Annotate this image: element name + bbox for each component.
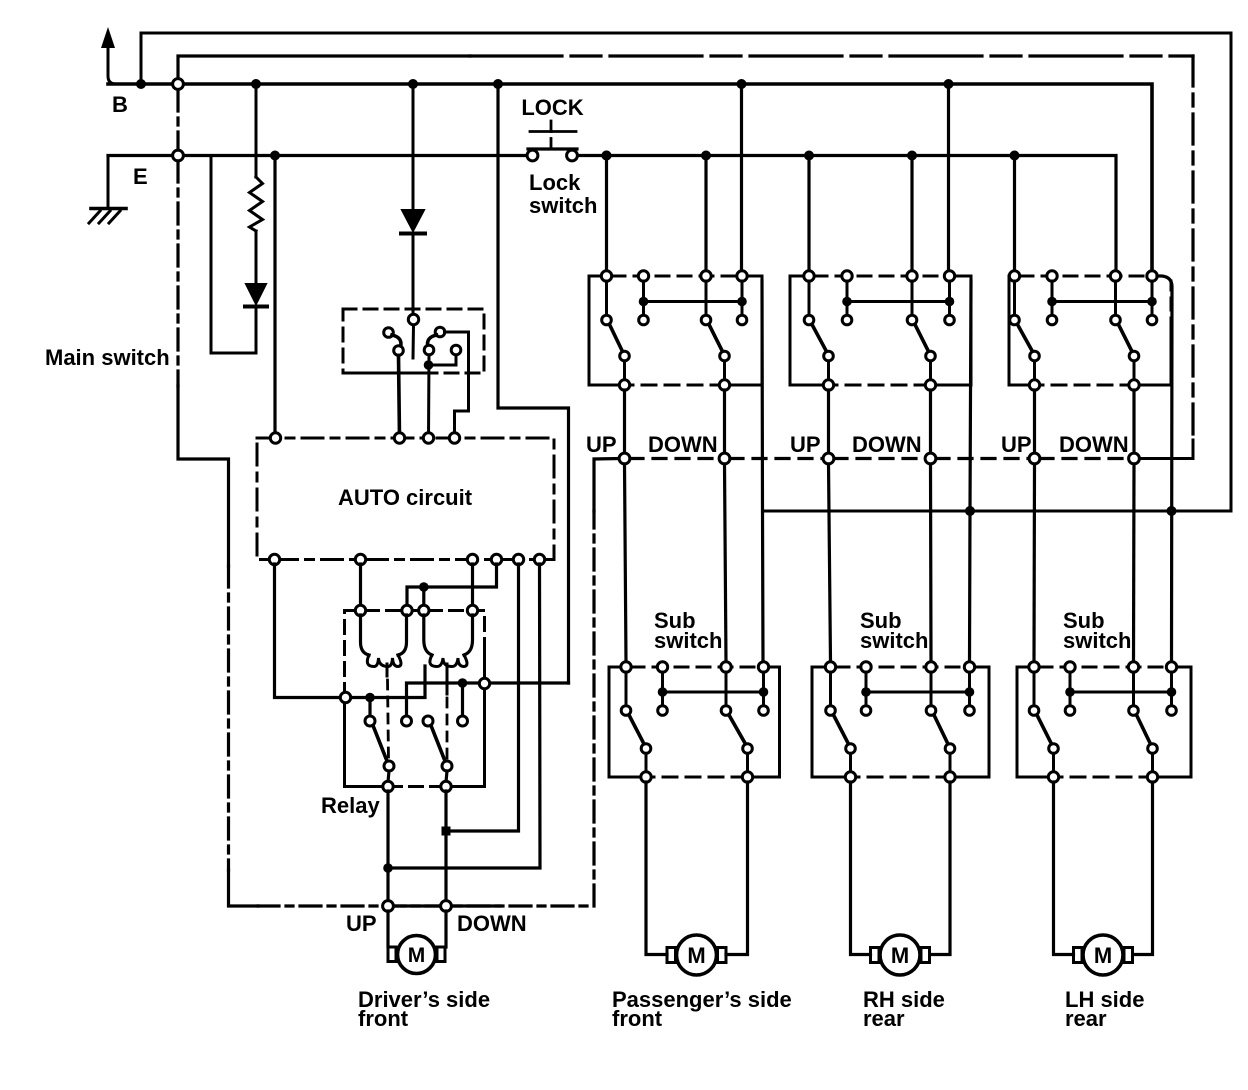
wire S3 bridge bar bbox=[1052, 300, 1152, 303]
switch arm S3 UP bbox=[1030, 351, 1040, 361]
switch arm S2 DOWN bbox=[926, 351, 936, 361]
Main switch boundary dashed bbox=[176, 161, 179, 386]
relay switch 2 bbox=[423, 716, 468, 792]
junction E to S1 T1 bbox=[602, 151, 612, 161]
relay coil 2 bbox=[424, 615, 473, 667]
switch arm S3 DOWN bbox=[1129, 351, 1139, 361]
wire sub1 to motor right bbox=[726, 782, 748, 955]
terminal relay feed bbox=[479, 678, 489, 688]
svg-text:front: front bbox=[358, 1006, 409, 1031]
terminal S2 T2 bbox=[842, 271, 852, 281]
terminal relay left bbox=[340, 692, 350, 702]
LOCK switch symbol bbox=[521, 95, 583, 161]
svg-text:DOWN: DOWN bbox=[852, 432, 922, 457]
terminal sub1 T1 bbox=[621, 662, 631, 672]
terminal sub2 T1 bbox=[825, 662, 835, 672]
terminal main switch E node bbox=[173, 150, 184, 161]
junction E to AUTO bbox=[270, 151, 280, 161]
wire S3 DOWN node to sub3 T3 bbox=[1132, 464, 1136, 662]
terminal S2 T3 bbox=[907, 271, 917, 281]
svg-text:M: M bbox=[408, 944, 426, 967]
svg-text:Relay: Relay bbox=[321, 793, 380, 818]
terminal sub2 T4 bbox=[964, 662, 974, 672]
wire B to S1 T4 bbox=[740, 84, 743, 271]
terminal S1 UP node bbox=[619, 453, 630, 464]
svg-text:UP: UP bbox=[346, 911, 377, 936]
AUTO circuit box bbox=[257, 433, 554, 565]
sub switch box 3 bbox=[1017, 662, 1191, 782]
wire contact D to AUTO bbox=[427, 355, 431, 438]
diode D2 bbox=[401, 84, 425, 314]
contact S3 pole 2 bbox=[1111, 315, 1121, 325]
wire S3 bridge stubs bbox=[1052, 281, 1152, 302]
junction coils common bbox=[419, 582, 429, 592]
wire E bus bbox=[108, 154, 527, 157]
switch arm sub2 UP bbox=[846, 744, 856, 754]
terminal S1 DOWN node bbox=[719, 453, 730, 464]
wire sub1 bridge bar bbox=[663, 691, 764, 694]
wire S3 T4 bend to sub3 bbox=[1157, 276, 1172, 662]
wire S1 UP node to sub1 T1 bbox=[625, 464, 627, 662]
wire S1 bridge stubs bbox=[644, 281, 743, 302]
junction D/E bbox=[424, 360, 434, 370]
wire S1 T4 to sub1 bbox=[762, 281, 763, 662]
junction feed RH bbox=[965, 506, 975, 516]
switch arm sub3 DOWN bbox=[1148, 744, 1158, 754]
svg-text:E: E bbox=[133, 164, 148, 189]
wire E to S3 T1 bbox=[1013, 156, 1016, 272]
junction feed at B bus bbox=[493, 79, 503, 89]
terminal S3 T3 bbox=[1110, 271, 1120, 281]
wire contact C to AUTO bbox=[445, 332, 469, 438]
relay coil 1 bbox=[361, 615, 407, 667]
wire E to S2 T1 bbox=[807, 156, 810, 272]
wire E to S2 T3 bbox=[910, 156, 913, 272]
wire relay to motor UP bbox=[386, 791, 389, 901]
terminal S2 T1 bbox=[804, 271, 814, 281]
terminal sub3 T4 bbox=[1166, 662, 1176, 672]
svg-text:DOWN: DOWN bbox=[457, 911, 527, 936]
wire junction to coil2 bbox=[422, 587, 425, 606]
terminal S2 UP node bbox=[823, 453, 834, 464]
terminal S1 T4 bbox=[737, 271, 747, 281]
motor M2 passenger's side front bbox=[667, 935, 726, 975]
junction B to S2 T4 bbox=[944, 79, 954, 89]
wire node line S1 bbox=[630, 457, 719, 460]
wire S2 DOWN node to sub2 T3 bbox=[929, 464, 933, 662]
terminal S1 T3 bbox=[701, 271, 711, 281]
wire AUTO left to relay bbox=[275, 564, 341, 698]
wire S2 pole stubs bbox=[809, 281, 912, 315]
wire S2 bridge bar bbox=[847, 300, 950, 303]
wire sub3 to motor right bbox=[1133, 782, 1153, 955]
wire B to relay contact feed bbox=[498, 84, 569, 683]
svg-text:Lock: Lock bbox=[529, 170, 581, 195]
wire sub2 to motor right bbox=[930, 782, 950, 955]
wire top feed line bbox=[141, 33, 1231, 511]
contact S2 pole 2 bbox=[907, 315, 917, 325]
junction UP sense bbox=[383, 863, 393, 873]
wire S3 UP to node bbox=[1033, 390, 1036, 453]
junction E to S2 T1 bbox=[804, 151, 814, 161]
svg-text:UP: UP bbox=[790, 432, 821, 457]
diode D1 bbox=[245, 284, 267, 353]
svg-text:switch: switch bbox=[1063, 628, 1131, 653]
terminal S3 T2 bbox=[1047, 271, 1057, 281]
terminal S1 T2 bbox=[638, 271, 648, 281]
svg-text:UP: UP bbox=[1001, 432, 1032, 457]
mechanical link coil1 bbox=[386, 664, 389, 676]
wire S2 bridge stubs bbox=[847, 281, 950, 302]
wire S1 UP to node bbox=[623, 390, 626, 453]
switch box S2 bbox=[790, 271, 971, 390]
terminal main switch B node bbox=[173, 79, 184, 90]
svg-text:B: B bbox=[112, 92, 128, 117]
svg-text:rear: rear bbox=[863, 1006, 905, 1031]
terminal sub2 T2 bbox=[861, 662, 871, 672]
wire E to AUTO circuit bbox=[273, 156, 276, 439]
terminal sub1 T4 bbox=[758, 662, 768, 672]
terminal driver DOWN bbox=[441, 901, 452, 912]
relay switch 1 bbox=[365, 716, 412, 792]
wire sub1 to motor left bbox=[646, 782, 667, 955]
wire S1 DOWN node to sub1 T3 bbox=[725, 464, 727, 662]
wire B bus bbox=[108, 84, 1152, 276]
wire S2 UP node to sub2 T1 bbox=[829, 464, 831, 662]
motor M4 LH side rear bbox=[1074, 935, 1133, 975]
svg-text:AUTO circuit: AUTO circuit bbox=[338, 485, 473, 510]
svg-text:switch: switch bbox=[860, 628, 928, 653]
wire S3 DOWN to node bbox=[1132, 390, 1135, 453]
wire contact A to AUTO bbox=[399, 356, 400, 439]
junction relay NO2 bbox=[458, 678, 468, 688]
relay box bbox=[345, 611, 485, 787]
junction D2 at B bus bbox=[408, 79, 418, 89]
wire S2 DOWN to node bbox=[929, 390, 932, 453]
mechanical link coil2 bbox=[446, 664, 449, 694]
wire S2 UP to node bbox=[827, 390, 830, 453]
wire relay to motor DOWN bbox=[444, 791, 447, 901]
junction E to S3 T1 bbox=[1010, 151, 1020, 161]
wire S2 T4 to sub2 bbox=[970, 281, 972, 662]
terminal sub3 T1 bbox=[1029, 662, 1039, 672]
wire S1 pole stubs bbox=[607, 281, 707, 315]
wire S3 UP node to sub3 T1 bbox=[1032, 464, 1036, 662]
terminal S3 DOWN node bbox=[1129, 453, 1140, 464]
wire node line S3 bbox=[1040, 457, 1129, 460]
wire sub3 bridge bar bbox=[1070, 691, 1172, 694]
terminal sub1 T2 bbox=[657, 662, 667, 672]
sub switch box 1 bbox=[609, 662, 780, 782]
battery feed arrow bbox=[101, 27, 116, 84]
wire S1 bridge bar bbox=[644, 300, 743, 303]
driver window contact box (main switch) bbox=[343, 309, 484, 373]
ground symbol bbox=[89, 156, 126, 224]
wire node line S2 bbox=[834, 457, 925, 460]
wire E to S1 T3 bbox=[704, 156, 707, 272]
terminal sub1 T3 bbox=[721, 662, 731, 672]
junction lock to E bbox=[602, 151, 612, 161]
svg-text:Main switch: Main switch bbox=[45, 345, 170, 370]
wire S1 DOWN to node bbox=[723, 390, 726, 453]
svg-text:DOWN: DOWN bbox=[648, 432, 718, 457]
switch arm S2 UP bbox=[824, 351, 834, 361]
wire driver motor right bbox=[444, 911, 447, 947]
junction E to S1 T3 bbox=[701, 151, 711, 161]
wire sub2 to motor left bbox=[851, 782, 871, 955]
terminal S3 T1 bbox=[1009, 271, 1019, 281]
switch arm sub2 DOWN bbox=[945, 744, 955, 754]
wire relay box solid edges bbox=[452, 650, 485, 787]
svg-text:M: M bbox=[1094, 943, 1112, 968]
relay top terminals bbox=[355, 605, 365, 615]
wire sub2 bridge bar bbox=[866, 691, 970, 694]
contact S1 pole 1 bbox=[602, 315, 612, 325]
wire driver node link bbox=[383, 904, 500, 907]
switch arm sub1 DOWN bbox=[743, 744, 753, 754]
contact S3 pole 1 bbox=[1010, 315, 1020, 325]
relay contact feed wire bbox=[490, 681, 569, 684]
wire main switch boundary B-E segment bbox=[176, 90, 179, 150]
wire R1/D1 return to E bbox=[211, 156, 256, 354]
junction resistor at B bus bbox=[251, 79, 261, 89]
switch box S3 bbox=[1009, 271, 1171, 390]
wire contact E to junction bbox=[429, 355, 457, 365]
switch box S1 bbox=[589, 271, 762, 390]
wire AUTO to UP sense bbox=[388, 564, 540, 868]
junction B to S1 T4 bbox=[737, 79, 747, 89]
motor M1 driver's side front bbox=[388, 936, 445, 974]
switch arm S1 UP bbox=[620, 351, 630, 361]
terminal S3 T4 bbox=[1147, 271, 1157, 281]
wire AUTO to DOWN sense bbox=[446, 564, 519, 831]
wire E to S1 T1 bbox=[605, 156, 608, 272]
svg-text:switch: switch bbox=[529, 193, 597, 218]
wire AUTO to relay coils common bbox=[407, 564, 497, 606]
terminal S2 DOWN node bbox=[925, 453, 936, 464]
terminal S1 T1 bbox=[601, 271, 611, 281]
resistor R1 bbox=[250, 84, 263, 284]
motor M3 RH side rear bbox=[871, 935, 930, 975]
junction top feed at B bus bbox=[136, 79, 146, 89]
contact S1 pole 2 bbox=[701, 315, 711, 325]
wire S3 pole stubs bbox=[1015, 281, 1116, 315]
wire driver motor left bbox=[386, 911, 389, 947]
svg-text:front: front bbox=[612, 1006, 663, 1031]
svg-text:rear: rear bbox=[1065, 1006, 1107, 1031]
contact S2 pole 1 bbox=[804, 315, 814, 325]
junction DOWN sense bbox=[442, 827, 451, 836]
junction E to S2 T3 bbox=[907, 151, 917, 161]
switch arm sub3 UP bbox=[1049, 744, 1059, 754]
svg-text:DOWN: DOWN bbox=[1059, 432, 1129, 457]
wire AUTO to relay coil right bbox=[471, 564, 474, 606]
junction feed LH bbox=[1167, 506, 1177, 516]
wire sub3 to motor left bbox=[1054, 782, 1074, 955]
switch arm sub1 UP bbox=[641, 744, 651, 754]
svg-text:M: M bbox=[891, 943, 909, 968]
terminal sub2 T3 bbox=[926, 662, 936, 672]
terminal driver UP bbox=[383, 901, 394, 912]
sub switch box 2 bbox=[812, 662, 989, 782]
terminal sub3 T3 bbox=[1128, 662, 1138, 672]
svg-text:switch: switch bbox=[654, 628, 722, 653]
terminal S3 UP node bbox=[1029, 453, 1040, 464]
svg-text:UP: UP bbox=[586, 432, 617, 457]
relay pivot wire bbox=[351, 666, 426, 698]
switch arm S1 DOWN bbox=[720, 351, 730, 361]
svg-text:LOCK: LOCK bbox=[521, 95, 583, 120]
wire AUTO to relay coil left bbox=[359, 564, 362, 606]
terminal sub3 T2 bbox=[1065, 662, 1075, 672]
wire B to S2 T4 bbox=[947, 84, 950, 271]
terminal S2 T4 bbox=[944, 271, 954, 281]
wire dash-dot link (LH DOWN to main switch) bbox=[178, 56, 470, 78]
svg-text:M: M bbox=[687, 943, 705, 968]
